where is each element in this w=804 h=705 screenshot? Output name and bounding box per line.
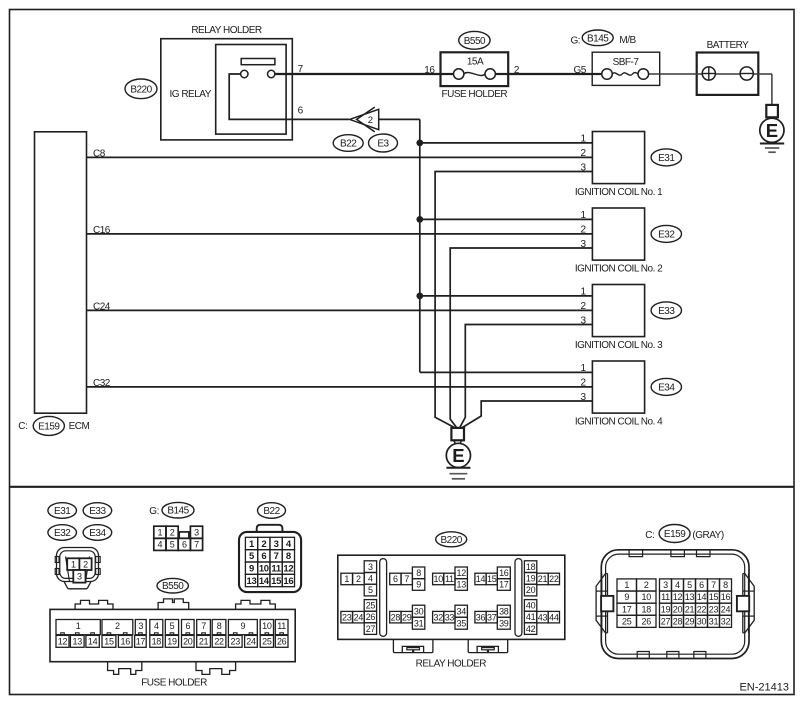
svg-text:12: 12 [673, 592, 683, 602]
svg-text:15: 15 [104, 637, 114, 647]
svg-text:C:: C: [18, 421, 27, 432]
svg-text:37: 37 [487, 612, 497, 622]
svg-text:7: 7 [194, 540, 199, 550]
svg-text:12: 12 [58, 637, 68, 647]
svg-text:C32: C32 [93, 378, 111, 389]
svg-text:E159: E159 [38, 421, 60, 432]
svg-text:20: 20 [673, 604, 683, 614]
svg-text:15: 15 [271, 576, 282, 587]
svg-text:RELAY HOLDER: RELAY HOLDER [191, 25, 262, 36]
svg-text:16: 16 [499, 568, 509, 578]
svg-text:8: 8 [217, 621, 222, 631]
svg-text:3: 3 [274, 539, 279, 550]
svg-text:42: 42 [526, 624, 536, 634]
svg-text:11: 11 [271, 563, 281, 574]
svg-text:21: 21 [685, 604, 695, 614]
svg-text:1: 1 [344, 574, 349, 584]
svg-text:E34: E34 [89, 528, 106, 539]
svg-text:20: 20 [183, 637, 193, 647]
svg-text:G:: G: [149, 506, 159, 517]
svg-text:23: 23 [342, 612, 352, 622]
svg-text:E31: E31 [54, 506, 71, 517]
svg-text:2: 2 [261, 539, 266, 550]
svg-text:C8: C8 [93, 148, 106, 159]
svg-text:3: 3 [138, 621, 143, 631]
svg-text:2: 2 [83, 559, 88, 569]
svg-text:1: 1 [71, 559, 76, 569]
svg-text:4: 4 [368, 574, 373, 584]
svg-text:M/B: M/B [619, 35, 636, 46]
svg-text:8: 8 [723, 580, 728, 590]
svg-text:31: 31 [709, 616, 719, 626]
svg-text:9: 9 [624, 592, 629, 602]
svg-text:16: 16 [424, 65, 435, 76]
svg-text:19: 19 [167, 637, 177, 647]
svg-text:29: 29 [402, 612, 412, 622]
svg-text:10: 10 [642, 592, 652, 602]
svg-text:E31: E31 [658, 153, 675, 164]
svg-text:3: 3 [368, 562, 373, 572]
svg-text:17: 17 [136, 637, 146, 647]
svg-text:26: 26 [366, 612, 376, 622]
svg-text:5: 5 [170, 621, 175, 631]
svg-text:22: 22 [549, 574, 559, 584]
svg-text:1: 1 [624, 580, 629, 590]
svg-text:32: 32 [721, 616, 731, 626]
svg-text:EN-21413: EN-21413 [739, 681, 789, 693]
svg-text:2: 2 [368, 115, 373, 126]
svg-text:SBF-7: SBF-7 [613, 57, 640, 68]
svg-text:G5: G5 [573, 65, 586, 76]
svg-text:20: 20 [526, 585, 536, 595]
svg-text:14: 14 [697, 592, 707, 602]
svg-text:B550: B550 [162, 581, 184, 592]
svg-text:FUSE HOLDER: FUSE HOLDER [141, 677, 207, 688]
svg-text:5: 5 [170, 540, 175, 550]
svg-text:23: 23 [231, 637, 241, 647]
svg-text:41: 41 [526, 612, 536, 622]
svg-text:22: 22 [214, 637, 224, 647]
svg-text:26: 26 [277, 637, 287, 647]
svg-text:11: 11 [445, 574, 454, 584]
svg-text:6: 6 [699, 580, 704, 590]
svg-text:B220: B220 [130, 84, 152, 95]
svg-text:14: 14 [259, 576, 270, 587]
svg-text:15: 15 [709, 592, 719, 602]
svg-text:B145: B145 [167, 506, 189, 517]
svg-text:2: 2 [644, 580, 649, 590]
svg-text:2: 2 [356, 574, 361, 584]
svg-text:17: 17 [499, 580, 509, 590]
svg-text:27: 27 [661, 616, 671, 626]
svg-text:IGNITION COIL No. 4: IGNITION COIL No. 4 [575, 417, 663, 428]
svg-text:6: 6 [261, 551, 266, 562]
svg-text:14: 14 [88, 637, 98, 647]
svg-text:13: 13 [247, 576, 257, 587]
svg-text:8: 8 [416, 568, 421, 578]
svg-text:36: 36 [476, 612, 486, 622]
svg-text:19: 19 [526, 574, 536, 584]
svg-text:B220: B220 [441, 535, 463, 546]
svg-text:40: 40 [526, 601, 536, 611]
svg-text:31: 31 [414, 618, 424, 628]
svg-text:12: 12 [283, 563, 293, 574]
svg-text:3: 3 [77, 571, 82, 581]
svg-text:24: 24 [354, 612, 364, 622]
svg-text:16: 16 [283, 576, 293, 587]
svg-text:4: 4 [675, 580, 680, 590]
svg-text:16: 16 [721, 592, 731, 602]
svg-text:8: 8 [286, 551, 291, 562]
svg-text:18: 18 [152, 637, 162, 647]
svg-text:30: 30 [697, 616, 707, 626]
svg-text:43: 43 [538, 612, 548, 622]
svg-text:28: 28 [673, 616, 683, 626]
svg-text:BATTERY: BATTERY [707, 40, 750, 51]
svg-text:11: 11 [661, 592, 670, 602]
svg-text:18: 18 [642, 604, 652, 614]
svg-text:IG RELAY: IG RELAY [170, 89, 212, 100]
svg-text:C:: C: [645, 530, 654, 541]
svg-text:E159: E159 [664, 529, 686, 540]
svg-text:44: 44 [549, 612, 559, 622]
svg-text:E: E [452, 445, 464, 466]
svg-text:25: 25 [262, 637, 272, 647]
svg-text:3: 3 [663, 580, 668, 590]
svg-text:27: 27 [366, 624, 376, 634]
svg-text:E33: E33 [89, 506, 106, 517]
svg-text:E34: E34 [658, 382, 675, 393]
svg-text:34: 34 [456, 606, 466, 616]
svg-text:5: 5 [687, 580, 692, 590]
svg-text:22: 22 [697, 604, 707, 614]
svg-text:IGNITION COIL No. 1: IGNITION COIL No. 1 [575, 187, 663, 198]
svg-text:33: 33 [445, 612, 455, 622]
svg-text:3: 3 [194, 527, 199, 537]
svg-text:B145: B145 [587, 33, 609, 44]
svg-text:FUSE HOLDER: FUSE HOLDER [441, 89, 507, 100]
svg-text:E3: E3 [377, 139, 389, 150]
svg-text:30: 30 [414, 606, 424, 616]
svg-text:6: 6 [185, 621, 190, 631]
svg-text:IGNITION COIL No. 2: IGNITION COIL No. 2 [575, 264, 663, 275]
svg-text:35: 35 [456, 618, 466, 628]
svg-text:25: 25 [622, 616, 632, 626]
svg-text:5: 5 [368, 585, 373, 595]
svg-text:(GRAY): (GRAY) [692, 530, 723, 541]
svg-text:6: 6 [182, 540, 187, 550]
svg-text:1: 1 [158, 527, 163, 537]
svg-text:G:: G: [571, 35, 581, 46]
svg-text:7: 7 [274, 551, 279, 562]
svg-text:B22: B22 [263, 506, 280, 517]
svg-text:4: 4 [154, 621, 159, 631]
svg-text:21: 21 [199, 637, 209, 647]
svg-text:12: 12 [456, 568, 466, 578]
svg-text:39: 39 [499, 618, 509, 628]
svg-text:C24: C24 [93, 301, 111, 312]
svg-text:10: 10 [433, 574, 443, 584]
svg-text:19: 19 [661, 604, 671, 614]
svg-text:6: 6 [393, 574, 398, 584]
svg-text:24: 24 [246, 637, 256, 647]
svg-text:10: 10 [262, 621, 272, 631]
svg-text:7: 7 [201, 621, 206, 631]
svg-text:E: E [766, 120, 778, 141]
svg-text:7: 7 [711, 580, 716, 590]
svg-text:E32: E32 [658, 229, 675, 240]
svg-text:9: 9 [416, 580, 421, 590]
svg-text:29: 29 [685, 616, 695, 626]
svg-text:17: 17 [622, 604, 632, 614]
svg-text:ECM: ECM [69, 421, 90, 432]
svg-text:11: 11 [277, 621, 286, 631]
svg-text:25: 25 [366, 601, 376, 611]
svg-text:RELAY HOLDER: RELAY HOLDER [416, 659, 487, 670]
svg-text:21: 21 [538, 574, 548, 584]
svg-text:32: 32 [433, 612, 443, 622]
svg-text:18: 18 [526, 562, 536, 572]
svg-text:15: 15 [487, 574, 497, 584]
svg-text:1: 1 [76, 621, 81, 631]
svg-text:2: 2 [115, 621, 120, 631]
svg-text:9: 9 [249, 563, 254, 574]
svg-text:14: 14 [476, 574, 486, 584]
svg-text:15A: 15A [467, 56, 484, 67]
svg-text:10: 10 [259, 563, 269, 574]
svg-text:E33: E33 [658, 306, 675, 317]
svg-text:B22: B22 [340, 139, 357, 150]
svg-text:E32: E32 [54, 528, 71, 539]
svg-text:2: 2 [170, 527, 175, 537]
svg-text:9: 9 [240, 621, 245, 631]
svg-text:4: 4 [158, 540, 163, 550]
svg-text:13: 13 [456, 580, 466, 590]
svg-text:24: 24 [721, 604, 731, 614]
svg-text:B550: B550 [464, 36, 486, 47]
svg-text:13: 13 [73, 637, 83, 647]
svg-text:28: 28 [391, 612, 401, 622]
svg-text:26: 26 [642, 616, 652, 626]
svg-text:23: 23 [709, 604, 719, 614]
svg-text:7: 7 [404, 574, 409, 584]
svg-text:38: 38 [499, 606, 509, 616]
svg-text:IGNITION COIL No. 3: IGNITION COIL No. 3 [575, 340, 663, 351]
svg-text:16: 16 [121, 637, 131, 647]
svg-text:13: 13 [685, 592, 695, 602]
svg-text:C16: C16 [93, 225, 111, 236]
